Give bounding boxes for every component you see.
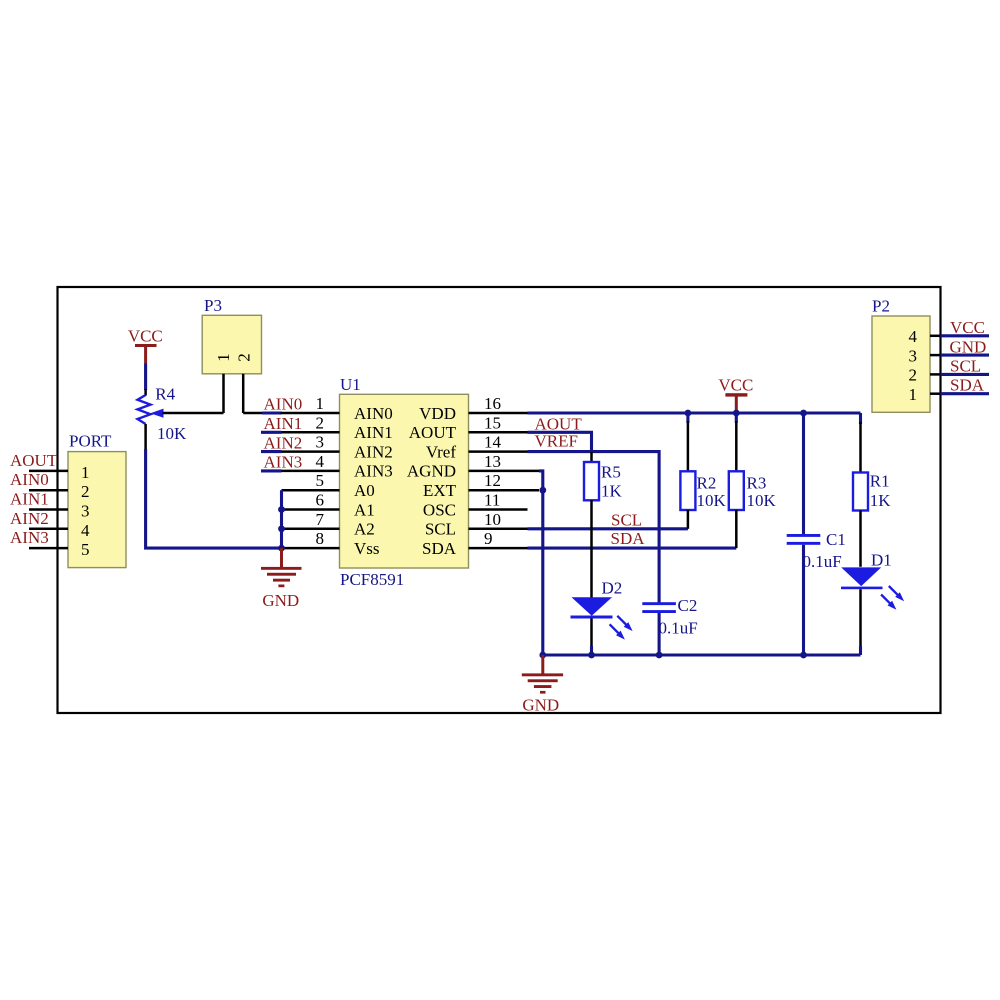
svg-text:7: 7 [316, 510, 325, 529]
svg-text:OSC: OSC [423, 500, 456, 519]
svg-text:4: 4 [316, 452, 325, 471]
junction rail/C1 [800, 652, 807, 659]
svg-text:VCC: VCC [718, 376, 753, 395]
resistor R3 [729, 413, 744, 548]
svg-text:3: 3 [909, 346, 918, 365]
wire P3 pin2 to U1 pin1 (AIN0 net) [243, 412, 263, 415]
svg-text:A0: A0 [354, 481, 375, 500]
svg-text:VCC: VCC [128, 327, 163, 346]
svg-text:C1: C1 [826, 530, 846, 549]
wire ground rail (bottom) [543, 653, 861, 656]
svg-text:13: 13 [484, 452, 501, 471]
junction rail/C2 [656, 652, 663, 659]
svg-text:0.1uF: 0.1uF [803, 552, 842, 571]
potentiometer R4 [138, 395, 224, 424]
svg-text:SCL: SCL [950, 356, 981, 375]
svg-text:SDA: SDA [422, 539, 457, 558]
capacitor C2 [642, 602, 676, 655]
U1 pin 4 (AIN3) [281, 452, 393, 481]
svg-text:1K: 1K [870, 491, 892, 510]
svg-text:1: 1 [316, 394, 325, 413]
PORT pin 3 [29, 502, 90, 521]
U1 pin 5 (A0) [282, 471, 375, 500]
svg-text:4: 4 [81, 521, 90, 540]
svg-text:AIN3: AIN3 [10, 528, 49, 547]
svg-text:10K: 10K [697, 491, 727, 510]
PORT pin 2 [29, 482, 90, 501]
net label VCC (P2 pin4) + stub [941, 318, 990, 337]
P2 pin 1 [909, 385, 941, 404]
svg-text:11: 11 [484, 491, 500, 510]
ground GND (bottom) [522, 655, 563, 694]
connector PORT [68, 452, 126, 568]
svg-text:D1: D1 [871, 550, 892, 569]
U1 pin 13 (AGND) [407, 452, 539, 481]
svg-text:6: 6 [316, 491, 325, 510]
svg-text:10K: 10K [157, 424, 187, 443]
ground GND (left) [261, 548, 302, 587]
wire AGND/EXT to ground [539, 471, 543, 655]
svg-text:10: 10 [484, 510, 501, 529]
U1 pin 7 (A2) [282, 510, 375, 539]
svg-text:Vref: Vref [426, 442, 456, 461]
svg-text:1: 1 [214, 353, 233, 362]
U1 pin 3 (AIN2) [281, 433, 393, 462]
U1 pin 16 (VDD) [419, 394, 527, 423]
svg-text:VCC: VCC [950, 318, 985, 337]
LED D1 [841, 567, 904, 655]
svg-text:12: 12 [484, 471, 501, 490]
junction rail/R2 [685, 410, 692, 417]
svg-text:A1: A1 [354, 500, 375, 519]
svg-text:R5: R5 [601, 462, 621, 481]
svg-text:U1: U1 [340, 375, 361, 394]
svg-text:5: 5 [316, 471, 325, 490]
U1 pin 2 (AIN1) [281, 413, 393, 442]
svg-text:3: 3 [81, 502, 90, 521]
junction EXT [539, 487, 546, 494]
svg-text:2: 2 [81, 482, 90, 501]
svg-text:P2: P2 [872, 297, 890, 316]
junction rail/C1 [800, 410, 807, 417]
svg-text:AIN2: AIN2 [354, 442, 393, 461]
svg-text:16: 16 [484, 394, 501, 413]
svg-text:AGND: AGND [407, 462, 456, 481]
LED D2 [571, 597, 633, 655]
U1 pin 6 (A1) [282, 491, 375, 520]
svg-text:AIN2: AIN2 [264, 433, 303, 452]
PORT pin 1 [29, 463, 90, 482]
svg-text:AIN0: AIN0 [10, 470, 49, 489]
svg-text:R3: R3 [747, 473, 767, 492]
junction rail/GND [539, 652, 546, 659]
svg-text:5: 5 [81, 540, 90, 559]
resistor R5 [584, 452, 599, 598]
svg-text:1: 1 [909, 385, 918, 404]
svg-text:SDA: SDA [611, 529, 646, 548]
svg-text:14: 14 [484, 433, 502, 452]
U1 pin 8 (Vss) [282, 529, 380, 558]
wire P3 pin2 lead [242, 374, 245, 413]
svg-text:AIN3: AIN3 [354, 462, 393, 481]
svg-text:AIN0: AIN0 [354, 404, 393, 423]
svg-text:1K: 1K [601, 481, 623, 500]
wire AOUT net (pin15 to R5) [528, 432, 592, 452]
svg-text:SCL: SCL [611, 511, 642, 530]
wire VCC to R4 top [144, 364, 147, 391]
PORT pin 4 [29, 521, 90, 540]
IC U1 body [340, 394, 469, 568]
svg-text:AOUT: AOUT [10, 451, 58, 470]
svg-text:8: 8 [316, 529, 325, 548]
svg-text:PCF8591: PCF8591 [340, 570, 404, 589]
U1 pin 10 (SCL) [425, 510, 528, 539]
wire SCL net (pin10 to R2) [528, 527, 688, 530]
resistor R1 [853, 413, 868, 567]
junction Vss/R4 [278, 545, 285, 552]
svg-text:2: 2 [235, 353, 254, 362]
U1 pin 12 (EXT) [423, 471, 539, 500]
svg-text:4: 4 [909, 327, 918, 346]
svg-text:PORT: PORT [69, 432, 112, 451]
P2 pin 3 [909, 346, 941, 365]
svg-text:SDA: SDA [950, 376, 985, 395]
net label SDA (P2 pin1) + stub [941, 376, 990, 395]
wire VCC rail (top) [528, 411, 861, 414]
svg-text:2: 2 [316, 413, 325, 432]
U1 pin 9 (SDA) [422, 529, 528, 558]
svg-text:R2: R2 [697, 473, 717, 492]
U1 pin 14 (Vref) [426, 433, 528, 462]
svg-text:AIN1: AIN1 [264, 414, 303, 433]
svg-text:R1: R1 [870, 471, 890, 490]
svg-text:AIN3: AIN3 [264, 453, 303, 472]
wire VREF net (pin14 to C2) [528, 452, 660, 603]
junction A2 [278, 525, 285, 532]
svg-text:3: 3 [316, 433, 325, 452]
svg-text:AIN1: AIN1 [354, 423, 393, 442]
U1 pin 1 (AIN0) [281, 394, 393, 423]
connector P3 [202, 315, 261, 374]
PORT pin 5 [29, 540, 90, 559]
P2 pin 4 [909, 327, 941, 346]
capacitor C1 [787, 413, 821, 655]
svg-text:AIN1: AIN1 [10, 490, 49, 509]
net label AIN2 + stub [261, 433, 302, 452]
svg-text:D2: D2 [602, 579, 623, 598]
power VCC (right) [718, 376, 753, 414]
svg-text:9: 9 [484, 529, 493, 548]
connector P2 [872, 316, 930, 412]
wire SDA net (pin9 to R3) [528, 547, 737, 550]
junction rail/D2 [588, 652, 595, 659]
net label AIN3 + stub [261, 453, 302, 472]
svg-text:AOUT: AOUT [409, 423, 457, 442]
svg-text:2: 2 [909, 366, 918, 385]
junction rail/R3 [733, 410, 740, 417]
net label GND (P2 pin3) + stub [941, 338, 990, 357]
svg-text:AIN2: AIN2 [10, 509, 49, 528]
U1 pin 11 (OSC) [423, 491, 528, 520]
wire P3 pin1 lead [222, 374, 225, 413]
power VCC (left) [128, 327, 163, 364]
P2 pin 2 [909, 366, 941, 385]
svg-text:AIN0: AIN0 [264, 395, 303, 414]
svg-text:R4: R4 [155, 385, 175, 404]
net label SCL (P2 pin2) + stub [941, 356, 990, 375]
svg-text:GND: GND [522, 696, 559, 715]
svg-text:EXT: EXT [423, 481, 457, 500]
wire R4 bottom to Vss node [144, 424, 147, 450]
svg-text:SCL: SCL [425, 520, 456, 539]
svg-text:GND: GND [262, 591, 299, 610]
svg-text:15: 15 [484, 413, 501, 432]
resistor R2 [680, 413, 695, 529]
svg-text:VREF: VREF [535, 431, 578, 450]
svg-text:P3: P3 [204, 296, 222, 315]
svg-text:1: 1 [81, 463, 90, 482]
U1 pin 15 (AOUT) [409, 413, 528, 442]
svg-text:VDD: VDD [419, 404, 456, 423]
junction A1 [278, 506, 285, 513]
wire A0/A1/A2/Vss tie bus [280, 490, 283, 548]
svg-text:0.1uF: 0.1uF [659, 618, 698, 637]
net label AIN1 + stub [261, 414, 302, 433]
svg-text:C2: C2 [678, 596, 698, 615]
svg-text:10K: 10K [747, 491, 777, 510]
svg-text:Vss: Vss [354, 539, 380, 558]
svg-text:A2: A2 [354, 520, 375, 539]
